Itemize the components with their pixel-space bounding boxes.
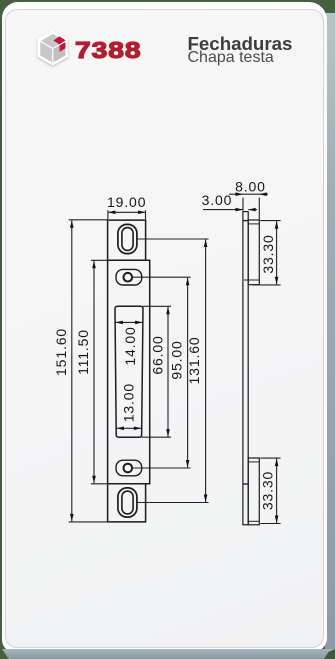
side view bottom tab bbox=[248, 458, 259, 525]
arrows 19.00 bbox=[108, 211, 116, 215]
cube top face bbox=[41, 34, 65, 48]
arrows 66.00 bbox=[166, 307, 170, 315]
arrows 33.30 top bbox=[275, 221, 279, 229]
svg-text:111.50: 111.50 bbox=[75, 329, 91, 375]
title 7388 bbox=[75, 39, 142, 63]
svg-text:66.00: 66.00 bbox=[150, 335, 166, 374]
arrows 151.60 bbox=[70, 220, 74, 228]
bottom screw circle bbox=[124, 464, 133, 473]
central latch cutout bbox=[115, 306, 143, 437]
subheading Chapa testa bbox=[188, 48, 274, 67]
front view plate outline bbox=[108, 220, 150, 522]
arrows 95.00 bbox=[186, 278, 190, 286]
dim 8.00 lines bbox=[242, 198, 244, 211]
dim 111.50 lines bbox=[91, 259, 108, 261]
side bottom tab inner fold lines bbox=[248, 461, 259, 463]
logo red corner top part bbox=[53, 36, 65, 44]
arrows 111.50 bbox=[92, 261, 96, 269]
background green speck bottom-right bbox=[324, 649, 335, 659]
top screw circle bbox=[124, 273, 133, 282]
side strip cross mark bottom bbox=[243, 483, 248, 485]
svg-text:33.30: 33.30 bbox=[259, 471, 275, 510]
arrows 14.00 bbox=[115, 321, 123, 325]
svg-text:3.00: 3.00 bbox=[202, 192, 233, 208]
cube right face bbox=[53, 42, 65, 63]
bottom screw slot bbox=[116, 460, 142, 476]
dim 95.00 lines bbox=[132, 276, 190, 278]
front view bottom step line bbox=[108, 483, 150, 485]
svg-text:131.60: 131.60 bbox=[186, 337, 202, 385]
side view plate strip bbox=[243, 212, 248, 525]
dim 19.00 lines bbox=[107, 210, 109, 219]
logo red corner right part bbox=[60, 42, 66, 52]
svg-text:19.00: 19.00 bbox=[107, 194, 146, 210]
arrows 8.00 bbox=[236, 192, 244, 196]
background green top-right corner bbox=[316, 0, 335, 13]
svg-text:13.00: 13.00 bbox=[121, 383, 137, 422]
dim 131.60 lines bbox=[137, 238, 209, 240]
background bottom photo strip bbox=[0, 649, 335, 659]
cube left face bbox=[40, 42, 52, 63]
dim 151.60 lines bbox=[69, 219, 108, 221]
side strip cross mark top bbox=[243, 220, 248, 222]
top oval slot outer bbox=[118, 224, 137, 253]
dim 14.00 line bbox=[115, 321, 142, 323]
arrows 33.30 bottom bbox=[275, 459, 279, 467]
side view top tab bbox=[248, 220, 259, 285]
dim 33.30 top lines bbox=[260, 220, 280, 222]
background green bottom-left corner bbox=[0, 648, 10, 659]
arrows 13.00 bbox=[117, 427, 125, 431]
front view top step line bbox=[108, 259, 150, 261]
svg-text:151.60: 151.60 bbox=[53, 328, 69, 376]
side top tab inner fold lines bbox=[248, 223, 259, 225]
svg-text:33.30: 33.30 bbox=[260, 234, 276, 273]
dim 33.30 bottom lines bbox=[260, 457, 280, 459]
dim 13.00 line bbox=[117, 427, 142, 429]
dim 3.00 lines bbox=[203, 209, 243, 211]
arrows 131.60 bbox=[204, 240, 208, 248]
background right photo strip bbox=[325, 10, 335, 659]
bottom oval slot outer bbox=[118, 488, 137, 517]
bottom oval slot inner bbox=[122, 491, 133, 514]
arrows 3.00 bbox=[236, 208, 244, 212]
svg-text:8.00: 8.00 bbox=[235, 179, 266, 195]
svg-text:14.00: 14.00 bbox=[122, 326, 138, 365]
top oval slot inner bbox=[122, 228, 133, 251]
top screw slot bbox=[116, 269, 142, 285]
dim 66.00 lines bbox=[143, 305, 171, 307]
svg-text:95.00: 95.00 bbox=[169, 340, 185, 379]
heading Fechaduras bbox=[188, 33, 293, 55]
